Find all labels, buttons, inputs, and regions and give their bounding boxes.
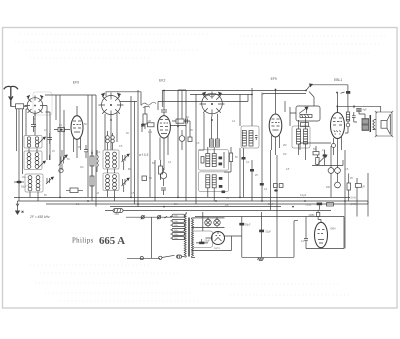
bus tails right [367,201,369,204]
wire rail y101 [158,95,248,111]
svg-text:EM4: EM4 [331,228,337,231]
trimmer arrows left [38,137,54,184]
magic eye resistor [316,210,319,217]
cap col x252 [250,160,254,201]
tube V2 EK2 [158,91,171,171]
svg-text:2M52: 2M52 [309,214,316,217]
wire top loop EF9 [45,95,96,207]
svg-text:0,1µF: 0,1µF [300,194,307,197]
coil block L1 [24,136,42,149]
svg-text:4µF: 4µF [363,109,368,112]
wire mid verticals [120,90,196,207]
cap col x262 [260,183,264,186]
line resistor 25ohm [113,209,123,213]
svg-text:LR: LR [96,192,99,195]
svg-text:EF9: EF9 [271,77,277,81]
filter cap C32 [260,212,264,257]
svg-text:Philips: Philips [72,238,94,245]
cap on EBL1 feed [341,91,351,94]
svg-text:400: 400 [326,186,331,189]
tube V1 EF9 [71,106,83,158]
cap col x243 [242,148,246,197]
magic eye EM4 [315,217,328,248]
wire left verticals [17,109,29,201]
resistor box LR [66,188,83,193]
wire S2 to osc coils [105,113,117,150]
speaker LS [375,111,393,137]
svg-text:(0-A): (0-A) [351,197,357,200]
plate load parts [345,106,357,133]
IF transformer IF2a [241,126,259,148]
svg-text:A.Z.1: A.Z.1 [214,247,220,250]
resistor R2 [54,128,70,132]
pot cluster [300,143,361,201]
wire right side [345,150,368,249]
output transformer T2 primary [362,119,369,131]
wire S3 to IF1 [199,113,218,150]
cap 4uF [356,108,365,118]
switch contacts mains [141,215,167,219]
wire antenna to switch S1 [11,106,16,108]
wire mains bottom [127,217,160,258]
svg-text:1M: 1M [148,120,151,123]
resistor pair bottom [274,184,284,192]
faint ghost print top margin (decorative) [15,34,385,58]
mains plug [177,255,185,258]
svg-text:2F = 458 kHz: 2F = 458 kHz [29,215,50,219]
label box 7-6 [327,203,334,206]
cap right of L6 [188,137,192,142]
screen parts V1 [84,145,98,197]
svg-text:a·f 0,5: a·f 0,5 [139,153,149,157]
wire if2 verticals [240,88,296,201]
svg-text:25Ω: 25Ω [115,213,120,216]
output transformer secondary [373,120,376,130]
bottom rail [242,155,298,257]
svg-text:665 A: 665 A [99,235,125,247]
transformer T1 core [188,218,190,257]
osc coil block L5 [103,169,119,201]
wire bus 5 [105,209,331,211]
Philips 665 A title [72,235,125,247]
wire rail y94 [190,94,252,96]
magic eye wiring [304,217,344,249]
rectifier AZ1 [192,232,242,251]
transformer T1 tap boxes [170,214,185,239]
output transformer core [369,115,371,132]
wire switch down [35,106,50,161]
osc coil block L4 [103,150,119,169]
wire bus 1 [14,196,350,198]
wire bus 4 [110,206,281,208]
svg-text:(0-R): (0-R) [351,203,357,206]
svg-text:1M: 1M [283,153,286,156]
svg-text:472: 472 [148,131,153,134]
IF transformer IF1b [199,147,229,201]
B+ rail [195,216,344,218]
cap on bus [317,203,322,210]
svg-text:EBL1: EBL1 [334,78,342,82]
wire avc [263,94,306,95]
svg-text:250Ω: 250Ω [306,204,312,207]
electrolytic cap on left rail [14,181,24,184]
handwriting note 2 [141,102,156,107]
wire S3 box top [162,91,306,108]
coil block L2 [24,149,42,170]
cathode circle V4 [332,144,336,156]
resistor col x231 [224,147,233,172]
cap near L1 [48,133,53,144]
transformer T1 primary winding [184,214,186,256]
ground power [257,257,265,260]
svg-text:2M: 2M [283,144,286,147]
wire EBL1 top [311,85,381,113]
svg-text:1M: 1M [80,166,83,169]
osc coil pair L4a [106,131,115,150]
cap below S1 [31,116,36,132]
svg-text:50µF: 50µF [205,239,211,242]
tube V3 EF9 [269,90,282,156]
pilot lamps [192,217,225,227]
wire bus 2 [18,200,369,202]
rotary switch S1 [25,92,53,116]
svg-text:EK2: EK2 [159,79,166,83]
coupling box after antenna [16,104,24,109]
detector arrow [306,84,314,106]
IF transformer IF1a [199,150,229,170]
output stage vert [356,201,358,217]
ground main [15,201,24,215]
wire x270 [270,150,272,210]
rotary switch S2 [99,93,124,118]
svg-text:1M: 1M [174,203,177,206]
trimmers osc [122,154,130,192]
antenna [4,86,18,106]
tube V4 EBL1 [331,93,345,161]
svg-text:LR: LR [362,185,365,188]
IF coil upper [210,139,220,147]
wire S2 box top [106,92,141,105]
wire bus 3 [46,203,368,205]
transformer T1 secondary winding [192,219,194,256]
handwriting mark [205,94,219,97]
wire mains top [126,216,172,218]
variable cap C1 [59,150,68,170]
small circle part [59,168,63,172]
svg-text:50µF: 50µF [21,186,27,189]
svg-text:EF9: EF9 [73,80,79,84]
svg-text:50µF: 50µF [268,203,274,206]
IF transformer IF2b [292,119,310,161]
svg-text:50µF: 50µF [245,224,251,227]
label 1a [301,123,309,127]
parts near EK2 [141,106,167,195]
coil block L3 [25,174,43,201]
transformer wires [185,212,196,258]
svg-text:32µF: 32µF [265,230,271,233]
resistor R3 [171,91,191,138]
detector diode box [296,106,320,121]
svg-text:1M: 1M [22,176,25,179]
filter cap C50 [240,217,244,258]
transformer tap labels [174,216,180,240]
mains switch [140,255,174,259]
coil L6 [179,130,185,150]
rotary switch S3 [200,92,225,117]
AZ1 filter box [192,212,213,247]
